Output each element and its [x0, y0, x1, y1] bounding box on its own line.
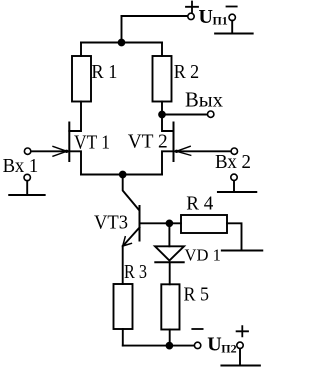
svg-text:Вх 1: Вх 1: [3, 156, 39, 177]
resistor R2: [153, 56, 172, 102]
terminal Up1 plus circle: [188, 13, 194, 19]
wire R1 top lead: [80, 43, 82, 57]
svg-text:VD 1: VD 1: [185, 245, 221, 264]
wire VT3 emitter to R3: [122, 246, 124, 284]
svg-text:R 5: R 5: [184, 284, 210, 306]
transistor VT3 emitter: [123, 228, 139, 246]
node junction output: [159, 112, 165, 118]
wire bottom rail: [123, 345, 195, 347]
svg-text:R 4: R 4: [186, 193, 213, 215]
transistor VT1 gate arrow: [53, 146, 67, 156]
svg-text:VT3: VT3: [94, 213, 128, 234]
transistor VT3 base bar: [139, 206, 141, 241]
diode VD1 cathode bar: [155, 261, 183, 263]
wire VT3 collector lead: [123, 175, 139, 211]
transistor VT3 emitter arrow: [123, 237, 132, 246]
resistor R3: [114, 284, 133, 329]
wire R3 bottom lead: [122, 329, 124, 346]
node junction base R4 VD1: [167, 220, 173, 226]
wire Bx1 common to ground bar: [26, 181, 28, 195]
wire VT1 source lead: [69, 151, 81, 174]
svg-text:Вх 2: Вх 2: [215, 152, 251, 173]
wire VD1 anode lead: [168, 223, 170, 246]
svg-text:R 2: R 2: [174, 61, 200, 83]
wire output to terminal: [162, 114, 207, 116]
terminal Bx2 common circle: [231, 174, 237, 180]
svg-text:R 1: R 1: [91, 61, 117, 83]
terminal Bx1 signal circle: [24, 148, 30, 154]
plus sign Up1: [186, 2, 198, 13]
wire top supply vertical: [121, 16, 123, 43]
wire VT2 drain lead: [162, 115, 174, 132]
terminal Up2 plus circle: [237, 342, 243, 348]
node junction bottom rail: [167, 343, 173, 349]
minus sign Up1: [227, 6, 237, 8]
wire top supply horizontal: [122, 15, 189, 17]
wire VT1 gate lead from Bx1: [31, 150, 69, 152]
wire VD1 cathode to R5: [169, 262, 171, 284]
plus sign Up2: [237, 326, 248, 336]
resistor R1: [72, 56, 91, 102]
terminal Bx2 signal circle: [231, 148, 237, 154]
transistor VT1 channel bar: [68, 123, 70, 162]
svg-text:R 3: R 3: [124, 261, 147, 283]
wire VT3 base lead: [140, 222, 182, 224]
wire Bx2 common to ground bar: [233, 181, 235, 192]
terminal Bx1 common circle: [24, 174, 30, 180]
node junction common source: [120, 172, 126, 178]
wire Up2 plus to ground bar: [239, 349, 241, 366]
ground bar under Bx1: [9, 194, 45, 196]
wire top rail between R1 and R2: [81, 42, 162, 44]
terminal Up1 minus circle: [229, 14, 235, 20]
node junction top rail: [119, 40, 125, 46]
wire R1 bottom lead to VT1 drain: [69, 102, 81, 132]
wire R2 top lead: [161, 43, 163, 57]
wire R4 right lead: [227, 223, 242, 250]
transistor VT2 gate arrow: [176, 146, 190, 155]
wire VT2 source lead: [162, 151, 174, 174]
wire VT2 gate lead to Bx2: [174, 150, 231, 152]
diode VD1 triangle: [155, 246, 184, 260]
svg-text:Вых: Вых: [185, 87, 223, 111]
terminal Up2 minus circle: [194, 342, 200, 348]
svg-text:VT 1: VT 1: [74, 131, 110, 153]
wire common source bottom: [81, 174, 162, 176]
resistor R5: [161, 284, 179, 329]
wire R2 bottom lead: [161, 102, 163, 115]
resistor R4: [181, 215, 227, 233]
ground bar under Bx2: [218, 191, 256, 193]
wire Up1 minus to ground bar: [231, 21, 233, 34]
svg-text:VT 2: VT 2: [128, 130, 168, 152]
ground bar under Up1 minus: [215, 33, 253, 35]
terminal output circle: [208, 111, 214, 117]
wire R5 bottom lead: [169, 330, 171, 346]
minus sign Up2: [192, 328, 202, 330]
ground bar under Up2 plus: [221, 365, 260, 367]
transistor VT2 channel bar: [173, 123, 175, 162]
ground bar right of R4: [222, 250, 262, 252]
